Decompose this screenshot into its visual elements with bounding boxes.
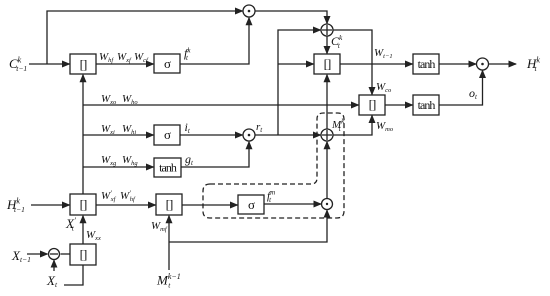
svg-text:[]: [] — [369, 97, 376, 112]
wire m-concat out to sigma m — [182, 204, 238, 206]
svg-text:σ: σ — [248, 197, 255, 212]
wire r out to plus M with branch — [255, 134, 321, 136]
svg-text:Wxg: Wxg — [101, 154, 117, 167]
svg-text:Ckt−1: Ckt−1 — [9, 56, 27, 74]
sigma U1 (forget gate) — [154, 54, 180, 73]
wire tanh1 out to multiply H — [439, 63, 476, 65]
wire Xt L-line into X-concat bottom — [64, 265, 83, 285]
multiply node fm*M — [322, 199, 333, 210]
wire o row — [83, 104, 359, 106]
wire r branch up to plus C — [278, 30, 321, 135]
svg-text:[]: [] — [80, 197, 87, 212]
svg-text:tanh: tanh — [418, 98, 436, 112]
sigma U2 (input gate) — [154, 125, 180, 145]
wire Xt up into minus — [53, 260, 55, 271]
wire C(t-1) top branch to multiply — [47, 11, 243, 64]
svg-text:Whi: Whi — [122, 123, 136, 136]
svg-text:Whg: Whg — [122, 154, 138, 167]
concat box m-forget — [156, 194, 182, 215]
svg-text:Hkt−1: Hkt−1 — [6, 197, 25, 215]
sigma U6 (memory forget) — [238, 195, 264, 214]
svg-text:tanh: tanh — [159, 161, 177, 175]
svg-text:σ: σ — [164, 56, 171, 71]
svg-text:ot: ot — [469, 86, 478, 101]
wire X' vertical into H-concat — [82, 216, 84, 244]
multiply node i*g — [243, 129, 255, 141]
wire plus M right up to concat2 bottom (Wmo) — [333, 116, 372, 136]
concat box f-gates — [70, 54, 96, 74]
svg-text:X′t: X′t — [65, 216, 76, 233]
wire tanh g out up to multiply r — [181, 142, 249, 167]
svg-text:Wxf: Wxf — [117, 51, 132, 64]
svg-text:Wmo: Wmo — [376, 120, 394, 133]
wire M branch to multiply m bottom — [169, 210, 327, 242]
concat box X diff — [70, 244, 96, 265]
wire f-concat to sigma1 — [96, 63, 154, 65]
svg-text:fkt: fkt — [184, 46, 191, 62]
plus node Mt — [321, 129, 333, 141]
wire tanh2 out up to multiply H — [439, 71, 483, 106]
svg-text:rt: rt — [256, 121, 263, 134]
svg-text:Wmf: Wmf — [151, 220, 168, 233]
wire plus M up to concat1 bottom — [326, 75, 328, 129]
wire minus to X-concat — [61, 253, 71, 255]
svg-text:Ckt: Ckt — [331, 33, 343, 50]
svg-text:W′xf: W′xf — [101, 190, 117, 204]
concat box H/X — [70, 194, 96, 215]
svg-text:[]: [] — [80, 57, 87, 72]
wire concat1 out to tanh1 — [340, 63, 413, 65]
wire H(t-1) input — [31, 204, 70, 206]
multiply node f*C — [243, 5, 255, 17]
svg-text:Wco: Wco — [376, 81, 392, 94]
plus node Ct — [321, 24, 333, 36]
wire multiply-out to plus C top — [255, 11, 327, 24]
wire plus C down to concat1 (Ct) — [326, 36, 328, 54]
tanh U5 (mem out) — [413, 95, 439, 115]
minus node X — [49, 249, 60, 260]
tanh U3 (candidate) — [154, 158, 181, 177]
wire M(k-1) vertical into m-concat — [168, 216, 170, 270]
wire g row — [83, 166, 154, 168]
svg-text:Wxo: Wxo — [101, 93, 117, 106]
svg-text:Who: Who — [122, 93, 138, 106]
svg-text:Wxi: Wxi — [101, 123, 115, 136]
dashed memory region outline — [203, 113, 344, 218]
wire X(t-1) input — [27, 253, 48, 255]
wire sigma m out to multiply m — [264, 203, 321, 205]
wire H-concat out to m-concat — [96, 204, 156, 206]
svg-text:σ: σ — [164, 127, 171, 142]
wire concat2 out to tanh2 — [385, 104, 413, 106]
wire multiply m up to plus M — [326, 142, 328, 199]
wire sigma2 i out to multiply r — [180, 134, 243, 136]
tanh U4 (cell out) — [413, 54, 439, 74]
svg-text:Wt−1: Wt−1 — [374, 47, 393, 60]
svg-text:tanh: tanh — [418, 57, 436, 71]
box glyphs — [80, 56, 436, 262]
svg-text:gt: gt — [185, 152, 194, 167]
wire plus C right down to concat2 top (Wco) — [333, 30, 372, 95]
wire r branch into concat1 left — [278, 63, 314, 65]
svg-text:Wxx: Wxx — [86, 229, 101, 242]
svg-text:Whf: Whf — [99, 51, 114, 64]
svg-text:it: it — [185, 120, 191, 135]
svg-text:fmt: fmt — [267, 189, 275, 205]
wire C(t-1) input — [29, 63, 70, 65]
svg-text:Xt: Xt — [46, 273, 58, 289]
svg-text:[]: [] — [324, 56, 331, 71]
multiply node o*tanh — [477, 58, 489, 70]
svg-text:W′hf: W′hf — [120, 190, 136, 204]
wire sigma1 f out up to multiply — [180, 18, 249, 64]
svg-text:Mk−1t: Mk−1t — [156, 272, 181, 290]
concat box C/M — [314, 54, 340, 74]
wire i row — [83, 134, 154, 136]
wire H-bus vertical — [82, 75, 84, 194]
svg-text:Hkt: Hkt — [526, 56, 540, 74]
svg-text:[]: [] — [80, 247, 87, 262]
svg-text:Wcf: Wcf — [134, 51, 149, 64]
svg-text:[]: [] — [166, 197, 173, 212]
svg-text:Mkt: Mkt — [331, 118, 345, 134]
svg-text:Xt−1: Xt−1 — [11, 248, 31, 264]
concat box o-gate — [359, 95, 385, 115]
wire multiply H out to Ht — [489, 63, 517, 65]
